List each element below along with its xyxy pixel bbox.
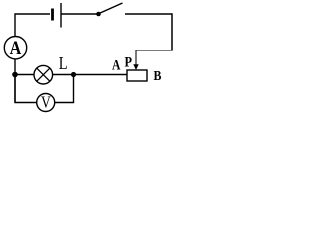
- rheostat wiper arrow P: [133, 50, 138, 70]
- wire top middle segment: [61, 13, 97, 15]
- svg-text:B: B: [154, 67, 162, 83]
- lamp L: [34, 65, 53, 84]
- voltmeter V1: [37, 93, 55, 112]
- wire voltmeter loop: [15, 75, 74, 103]
- svg-text:P: P: [125, 53, 133, 69]
- battery cell negative short bar: [51, 9, 54, 21]
- wire gray horizontal to wiper: [136, 50, 173, 52]
- rheostat R resistor body: [127, 70, 147, 81]
- wire right vertical: [171, 13, 173, 50]
- battery cell positive long bar: [60, 3, 62, 28]
- wire left vertical and top-left segment: [15, 14, 50, 103]
- ammeter A1: [4, 37, 26, 59]
- wire switch right terminal segment: [125, 13, 172, 15]
- switch S pivot dot: [96, 12, 101, 17]
- node junction left: [12, 72, 18, 78]
- svg-text:L: L: [59, 52, 68, 73]
- wire middle horizontal: [15, 74, 127, 76]
- node junction right: [71, 72, 76, 77]
- svg-text:A: A: [10, 37, 22, 59]
- svg-text:A: A: [112, 56, 121, 73]
- svg-text:V: V: [41, 93, 51, 112]
- switch S lever (open): [99, 3, 123, 14]
